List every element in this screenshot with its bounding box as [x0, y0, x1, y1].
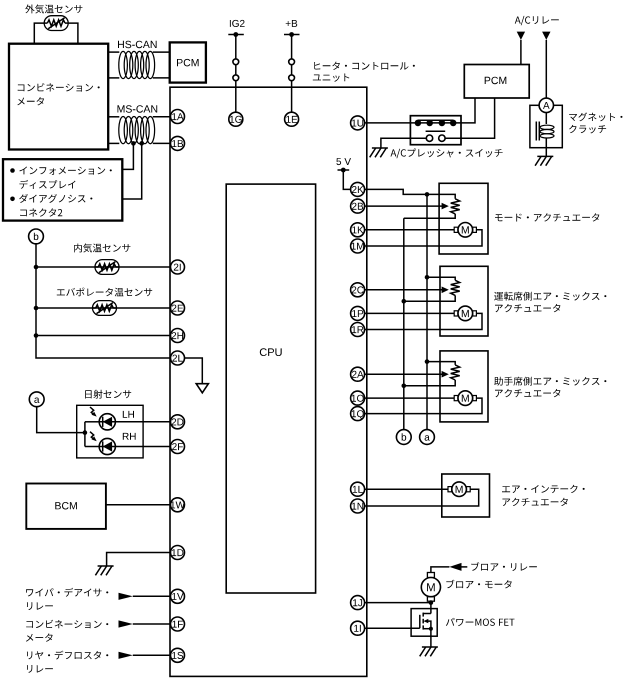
terminal 1L — [351, 482, 365, 496]
terminal 2L — [171, 351, 185, 365]
twisted pair MS-CAN — [119, 117, 155, 144]
junction a-bus act2 — [425, 275, 430, 280]
arrow blower relay — [449, 563, 467, 571]
power MOS FET box — [411, 609, 437, 637]
wire BCM to 1W — [106, 504, 171, 506]
pressure switch lower contacts — [410, 135, 461, 141]
wire intake motor return to 1N — [364, 489, 478, 506]
wire PCM to pressure switch (lower) — [461, 98, 495, 138]
connector +B b — [289, 75, 295, 81]
wire 2B wiper — [364, 203, 448, 210]
potentiometer passenger air mix — [451, 365, 460, 380]
ground (power MOS FET) — [420, 647, 438, 656]
terminal 1R — [351, 323, 365, 337]
junction b-2E — [34, 306, 39, 311]
terminal 2E — [171, 301, 185, 315]
label エア・インテーク・アクチュエータ — [502, 485, 585, 493]
thermistor cabin-air-temp sensor — [95, 260, 119, 275]
junction b-2I — [34, 265, 39, 270]
info box — [3, 159, 122, 220]
motor mode actuator — [454, 223, 476, 238]
terminal 1U — [351, 116, 365, 130]
wire RH anode — [85, 446, 99, 448]
terminal 1O — [351, 391, 365, 405]
photodiode RH — [90, 432, 115, 455]
label ダイアグノシス・コネクタ2 — [19, 194, 92, 203]
wire node-a to sun sensor — [37, 407, 85, 433]
wire FET source to ground — [430, 629, 432, 647]
terminal 1E — [285, 112, 299, 126]
clutch coil — [536, 113, 554, 157]
terminal 1V — [171, 589, 185, 603]
terminal 1G — [229, 112, 243, 126]
junction MS-CAN tap 1 — [131, 141, 136, 146]
wire to 2I — [36, 266, 171, 268]
terminal 1A — [171, 110, 185, 124]
terminal 2D — [171, 415, 185, 429]
terminal 2H — [171, 329, 185, 343]
wire IG2 to 1G — [235, 35, 237, 113]
junction a-bus top — [425, 192, 430, 197]
wire MS-CAN top to 1A — [108, 116, 171, 118]
wire +B to 1E — [291, 35, 293, 113]
node b (bottom) — [396, 430, 411, 445]
arrow rear defroster relay — [119, 652, 133, 659]
CPU box — [226, 184, 315, 593]
wire 1P to act2 motor — [364, 312, 454, 314]
junction b-2H — [34, 333, 39, 338]
terminal 2K — [351, 182, 365, 196]
terminal 1P — [351, 306, 365, 320]
arrow from A/C relay to PCM — [517, 32, 525, 40]
terminal 2B — [351, 199, 365, 213]
wire 1J — [364, 602, 431, 604]
supply tick 5V — [338, 168, 350, 173]
label IG2 — [230, 20, 245, 27]
wire relay to magnet clutch — [545, 40, 547, 98]
label HS-CAN — [118, 41, 157, 49]
wire a-bus to act3 pot — [427, 362, 455, 365]
magnet clutch box — [530, 105, 562, 147]
motor passenger air mix — [454, 391, 476, 406]
ground (magnet clutch) — [535, 156, 553, 165]
wire to 1V — [133, 595, 171, 597]
wire mode motor return to 1M — [364, 230, 482, 246]
label LH — [123, 411, 134, 418]
terminal 1M — [351, 239, 365, 253]
wire 2C wiper — [364, 287, 448, 294]
label RH — [123, 433, 136, 440]
junction a-bus act3 — [425, 359, 430, 364]
terminal 1Q — [351, 407, 365, 421]
label ブロア・リレー — [471, 562, 537, 571]
wire PCM to pressure switch (upper) — [461, 98, 475, 123]
arrow wiper deicer relay — [119, 593, 133, 600]
wire to 1F — [133, 623, 171, 625]
node b (left) — [29, 229, 44, 244]
wire MS-CAN bottom to 1B — [108, 142, 171, 144]
wire pressure switch to ground — [381, 138, 411, 148]
thermistor evaporator-temp sensor — [93, 301, 117, 316]
wire 1O to act3 motor — [364, 397, 454, 399]
wire node-b bus down to 2L — [36, 244, 171, 358]
terminal 1N — [351, 499, 365, 513]
terminal 1W — [171, 498, 186, 512]
terminal 2A — [351, 367, 365, 381]
label +B — [286, 20, 298, 27]
connector IG2 b — [233, 75, 239, 81]
ground (pressure switch) — [370, 148, 388, 157]
wire relay to blower motor — [431, 567, 450, 573]
wire RH to 2F — [115, 446, 170, 448]
label コンビネーション・メータ (bottom) — [26, 620, 108, 629]
wire 2A wiper — [364, 371, 448, 378]
terminal 1D — [171, 546, 185, 560]
heater control unit box — [170, 87, 367, 676]
junction sun sensor common — [83, 430, 88, 435]
label A/Cプレッシャ・スイッチ — [391, 148, 503, 158]
wire 1D to ground — [107, 553, 171, 567]
wire to 1S — [133, 654, 171, 656]
wire HS-CAN bottom — [108, 77, 170, 79]
label ワイパ・デアイサ・リレー — [26, 588, 108, 597]
ground (1D) — [95, 566, 113, 575]
wire a-bus to act2 pot — [427, 277, 455, 280]
BCM box — [26, 484, 106, 529]
open arrow (sensor ground) — [196, 384, 208, 393]
label 日射センサ — [85, 390, 131, 399]
wire LH to 2D — [115, 421, 170, 423]
junction blower/1J — [429, 600, 434, 605]
terminal 1F — [171, 617, 185, 631]
PCM box upper-right — [464, 65, 529, 99]
A/C pressure switch box — [410, 116, 461, 145]
twisted pair HS-CAN — [119, 51, 155, 78]
supply tick +B — [284, 32, 300, 37]
wire to 2E — [36, 307, 171, 309]
wire mode pot bottom to b-bus — [404, 214, 455, 218]
wire 5V to 2K — [343, 170, 351, 189]
label CPU — [260, 348, 282, 356]
label コンビネーション・メータ — [18, 83, 100, 92]
wire act3 pot bottom to b-bus — [404, 380, 455, 386]
PCM box upper-left — [170, 42, 206, 82]
blower motor — [421, 573, 440, 602]
photodiode LH — [90, 407, 115, 430]
wire 1L to intake motor — [364, 488, 448, 490]
wire 2L to arrow — [184, 358, 202, 384]
terminal 2I — [171, 260, 185, 274]
b-bus wire — [403, 218, 405, 430]
label 運転席側エア・ミックス・アクチュエータ — [494, 292, 606, 301]
terminal 1B — [171, 136, 185, 150]
wire LH anode — [85, 421, 99, 423]
a-bus wire — [426, 194, 428, 429]
motor air intake — [448, 482, 470, 497]
junction MS-CAN tap 2 — [139, 141, 144, 146]
thermistor outside-air-temp sensor — [44, 16, 68, 31]
pressure switch contact row — [410, 120, 461, 127]
node a (bottom) — [420, 430, 435, 445]
driver air mix box — [440, 266, 488, 336]
label ヒータ・コントロール・ユニット — [314, 62, 415, 70]
wire HS-CAN top — [108, 51, 170, 53]
sun sensor box — [77, 405, 143, 458]
wire 1K to mode motor — [364, 229, 454, 231]
label リヤ・デフロスタ・リレー — [27, 651, 108, 660]
passenger air mix box — [440, 351, 488, 422]
wire relay to PCM — [520, 40, 522, 65]
connector IG2 a — [233, 59, 239, 65]
pressure switch bar — [426, 130, 446, 132]
label MS-CAN — [118, 105, 158, 113]
sensor label 外気温センサ — [25, 4, 82, 13]
arrow combination meter — [119, 620, 133, 627]
supply tick IG2 — [228, 32, 244, 37]
mode actuator box — [439, 183, 488, 254]
air intake actuator box — [442, 474, 490, 517]
arrow from A/C relay to clutch — [542, 32, 550, 40]
junction b-bus act3 — [402, 384, 407, 389]
potentiometer driver air mix — [451, 280, 460, 295]
node a (left) — [29, 392, 44, 407]
wire act2 motor return to 1R — [364, 313, 482, 329]
bullet 2 — [10, 197, 15, 202]
terminal 2C — [351, 283, 365, 297]
ammeter A — [539, 98, 553, 112]
wire tap1 to display box — [122, 143, 133, 169]
wire thermistor to combination meter — [34, 23, 78, 44]
label エバポレータ温センサ — [57, 288, 152, 297]
label パワーMOS FET — [446, 618, 515, 626]
potentiometer mode — [451, 199, 460, 214]
wire act3 motor return to 1Q — [364, 398, 482, 414]
label A/Cリレー — [515, 16, 559, 25]
MOSFET symbol — [420, 613, 433, 631]
terminal 1I — [351, 621, 365, 635]
label 助手席側エア・ミックス・アクチュエータ — [494, 377, 606, 386]
terminal 1S — [171, 648, 185, 662]
label マグネット・クラッチ — [569, 113, 622, 122]
terminal 1K — [351, 223, 365, 237]
label 内気温センサ — [74, 243, 130, 252]
motor driver air mix — [454, 306, 476, 321]
combination meter box — [9, 44, 108, 150]
connector +B a — [289, 59, 295, 65]
junction b-bus act2 — [402, 299, 407, 304]
label ブロア・モータ — [446, 580, 511, 589]
wire tap2 to diagnosis connector — [122, 143, 141, 199]
terminal 1J — [351, 596, 365, 610]
wire sun sensor common — [84, 422, 86, 447]
label 5 V — [336, 158, 351, 165]
label モード・アクチュエータ — [495, 213, 599, 221]
bullet 1 — [10, 168, 15, 173]
wire act2 pot bottom to b-bus — [404, 295, 455, 301]
wire 1I to gate — [364, 627, 419, 629]
wire blower motor to FET — [430, 601, 432, 613]
wire 1U to pressure switch — [364, 122, 410, 124]
wire to 2H — [36, 335, 171, 337]
terminal 2F — [171, 440, 185, 454]
wire 2K to mode pot — [364, 189, 455, 198]
label インフォメーション・ディスプレイ — [19, 167, 111, 175]
